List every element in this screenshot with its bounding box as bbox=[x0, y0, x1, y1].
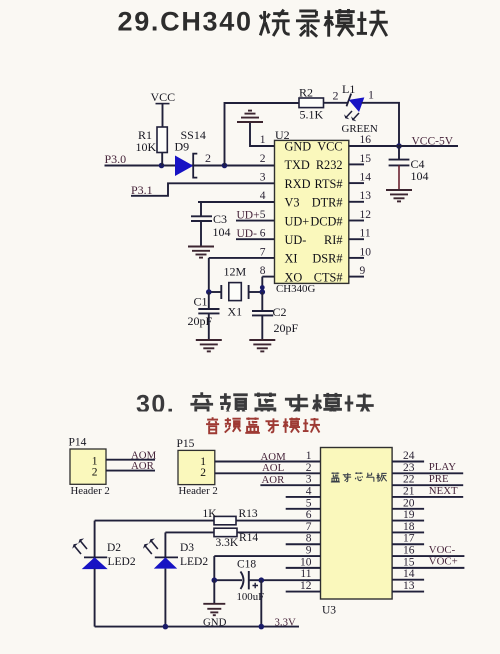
svg-text:7: 7 bbox=[260, 246, 266, 258]
U3 pin 8 stub wire bbox=[286, 543, 321, 545]
svg-text:PLAY: PLAY bbox=[429, 461, 456, 473]
svg-text:9: 9 bbox=[360, 265, 366, 277]
U3 pin 18 wire bbox=[392, 521, 424, 533]
U2 pin 9 CTS# bbox=[314, 265, 366, 284]
U3 pin 24 wire bbox=[392, 450, 424, 462]
svg-text:C1: C1 bbox=[194, 295, 208, 309]
resistor R1 10K bbox=[136, 127, 168, 166]
U2 pin 8 XO bbox=[260, 265, 303, 284]
crystal X1 12M bbox=[209, 264, 262, 318]
svg-text:2: 2 bbox=[260, 153, 266, 165]
svg-text:20pF: 20pF bbox=[188, 314, 213, 328]
svg-text:AOR: AOR bbox=[131, 460, 155, 472]
title: 29.CH340 burn module bbox=[118, 7, 388, 37]
svg-text:VCC-5V: VCC-5V bbox=[412, 135, 454, 147]
svg-text:UD-: UD- bbox=[285, 233, 307, 247]
svg-text:2: 2 bbox=[205, 151, 211, 165]
svg-text:5: 5 bbox=[306, 497, 312, 509]
resistor R2 5.1K bbox=[299, 86, 324, 122]
svg-text:15: 15 bbox=[403, 556, 415, 568]
svg-text:DTR#: DTR# bbox=[312, 196, 343, 210]
svg-text:17: 17 bbox=[403, 533, 415, 545]
svg-text:R13: R13 bbox=[239, 508, 258, 520]
svg-text:19: 19 bbox=[403, 509, 415, 521]
node crystal right bbox=[260, 289, 266, 295]
svg-text:6: 6 bbox=[260, 228, 266, 240]
wire branch up to R2 bbox=[225, 103, 300, 166]
U2 pin 4 V3 bbox=[260, 190, 300, 209]
svg-text:5: 5 bbox=[260, 209, 266, 221]
U2 pin 6 UD- bbox=[260, 228, 307, 247]
U2 pin 7 XI bbox=[260, 246, 298, 265]
svg-text:13: 13 bbox=[360, 190, 372, 202]
svg-text:UD-: UD- bbox=[237, 228, 258, 240]
net label UD- pin6 wire bbox=[236, 228, 275, 240]
capacitor C18 100uF bbox=[214, 558, 320, 603]
svg-text:U3: U3 bbox=[322, 604, 336, 616]
capacitor C2 20pF bbox=[252, 292, 299, 340]
svg-text:3: 3 bbox=[260, 172, 266, 184]
svg-text:C2: C2 bbox=[273, 305, 287, 319]
capacitor C3 104 bbox=[191, 202, 231, 246]
svg-text:LED2: LED2 bbox=[108, 556, 136, 568]
svg-text:C18: C18 bbox=[237, 558, 256, 570]
U3 pin 5 stub wire bbox=[286, 508, 321, 510]
U3 pin 15 wire bbox=[392, 556, 464, 569]
LED L1 GREEN bbox=[333, 82, 378, 135]
svg-text:14: 14 bbox=[360, 172, 372, 184]
svg-text:16: 16 bbox=[360, 134, 372, 146]
U3 pin 14 wire bbox=[392, 568, 424, 580]
svg-text:8: 8 bbox=[306, 533, 312, 545]
ground under C4 bbox=[386, 190, 412, 201]
svg-text:5.1K: 5.1K bbox=[300, 107, 324, 121]
U3 pin 12 stub wire bbox=[286, 591, 321, 593]
power VCC bbox=[151, 90, 176, 127]
svg-text:R2: R2 bbox=[299, 86, 313, 100]
node C18 plus / 3.3V branch bbox=[259, 577, 265, 583]
U2 pin 1 GND bbox=[260, 134, 312, 153]
svg-text:1: 1 bbox=[368, 88, 374, 102]
U2 pin 16 VCC bbox=[317, 134, 371, 153]
node C18 plus on rail bbox=[259, 624, 265, 630]
U3 pin 20 wire bbox=[392, 497, 424, 509]
U2 pin 11 RI# bbox=[324, 228, 371, 247]
svg-text:20pF: 20pF bbox=[274, 321, 299, 335]
svg-text:R14: R14 bbox=[239, 532, 258, 544]
U3 pin 22 wire bbox=[392, 473, 463, 486]
wire P14 pin2 AOR bbox=[106, 470, 155, 472]
capacitor C1 20pF bbox=[188, 292, 220, 340]
wire P3.1 to U2 pin3 bbox=[131, 183, 275, 196]
LED D3 bbox=[143, 532, 208, 626]
wire U3 pin9 to GND node bbox=[214, 555, 320, 557]
chip U3 bluetooth board body bbox=[321, 448, 393, 617]
svg-text:1: 1 bbox=[200, 456, 206, 468]
net label UD+ pin5 wire bbox=[236, 209, 275, 221]
ground (flipped) on U2 pin1 bbox=[237, 111, 275, 146]
wire U2 pin8 XO down bbox=[262, 276, 274, 278]
U2 pin 10 DSR# bbox=[312, 246, 371, 265]
svg-text:TXD: TXD bbox=[285, 158, 310, 172]
svg-text:4: 4 bbox=[306, 485, 312, 497]
svg-text:1K: 1K bbox=[203, 508, 218, 520]
svg-text:12: 12 bbox=[360, 209, 372, 221]
svg-text:13: 13 bbox=[403, 580, 415, 592]
title: 30. audio bluetooth module (clipped bottom) bbox=[136, 390, 374, 420]
svg-text:D2: D2 bbox=[107, 542, 121, 554]
node crystal left bbox=[206, 289, 212, 295]
svg-text:DSR#: DSR# bbox=[312, 252, 342, 266]
svg-text:UD+: UD+ bbox=[285, 214, 310, 228]
wire P15 pin1 to U3 pin1 AOM bbox=[215, 461, 321, 463]
svg-text:3: 3 bbox=[306, 474, 312, 486]
svg-text:104: 104 bbox=[213, 225, 231, 239]
svg-text:UD+: UD+ bbox=[237, 209, 260, 221]
LED D2 bbox=[72, 521, 136, 627]
svg-text:LED2: LED2 bbox=[180, 556, 208, 568]
ground under C3 bbox=[188, 247, 214, 258]
wire U2 pin16 VCC-5V bbox=[349, 145, 458, 147]
wire U3 pin3 AOR bbox=[260, 484, 320, 486]
svg-text:P15: P15 bbox=[177, 438, 195, 450]
svg-text:14: 14 bbox=[403, 568, 415, 580]
capacitor C4 104 bbox=[389, 146, 429, 190]
svg-text:24: 24 bbox=[403, 450, 415, 462]
svg-text:Header 2: Header 2 bbox=[71, 485, 110, 497]
U2 pin 12 DCD# bbox=[310, 209, 371, 228]
wire P14 pin1 AOM bbox=[106, 459, 155, 461]
svg-text:P14: P14 bbox=[69, 437, 87, 449]
svg-text:1: 1 bbox=[260, 134, 266, 146]
svg-text:CTS#: CTS# bbox=[314, 270, 343, 284]
svg-text:RXD: RXD bbox=[285, 177, 311, 191]
svg-text:12: 12 bbox=[300, 580, 312, 592]
resistor R14 3.3K bbox=[165, 528, 320, 549]
op chip U2 CH340G body bbox=[275, 128, 349, 295]
svg-text:3.3V: 3.3V bbox=[275, 617, 296, 629]
svg-text:CH340G: CH340G bbox=[276, 283, 315, 295]
U3 pin 13 wire bbox=[392, 580, 424, 592]
wire U2 pin4 V3 bbox=[198, 201, 275, 203]
node junction diode/R2 branch bbox=[222, 163, 228, 169]
svg-text:VOC+: VOC+ bbox=[429, 556, 458, 568]
svg-text:8: 8 bbox=[260, 265, 266, 277]
svg-text:GND: GND bbox=[285, 140, 312, 154]
svg-text:12M: 12M bbox=[224, 264, 247, 278]
U2 pin 13 DTR# bbox=[312, 190, 372, 209]
svg-text:9: 9 bbox=[306, 545, 312, 557]
svg-text:18: 18 bbox=[403, 521, 415, 533]
svg-text:Header 2: Header 2 bbox=[179, 485, 218, 497]
svg-text:AOR: AOR bbox=[262, 474, 286, 486]
wire L1 to VCC-5V rail bbox=[362, 103, 399, 146]
svg-text:21: 21 bbox=[403, 485, 415, 497]
svg-text:V3: V3 bbox=[285, 196, 300, 210]
svg-text:P3.0: P3.0 bbox=[105, 152, 127, 166]
svg-text:PRE: PRE bbox=[429, 473, 449, 485]
svg-text:DCD#: DCD# bbox=[310, 214, 342, 228]
svg-text:23: 23 bbox=[403, 462, 415, 474]
svg-text:104: 104 bbox=[411, 169, 429, 183]
svg-text:RI#: RI# bbox=[324, 233, 342, 247]
svg-text:11: 11 bbox=[360, 228, 371, 240]
svg-text:X1: X1 bbox=[228, 304, 243, 318]
svg-text:15: 15 bbox=[360, 153, 372, 165]
node junction R1/P3.0 bbox=[159, 163, 165, 169]
svg-text:100uF: 100uF bbox=[237, 591, 265, 603]
svg-text:16: 16 bbox=[403, 545, 415, 557]
svg-text:D3: D3 bbox=[180, 542, 194, 554]
svg-text:NEXT: NEXT bbox=[429, 485, 458, 497]
wire 3.3V rail bbox=[95, 626, 299, 628]
svg-text:AOM: AOM bbox=[261, 451, 287, 463]
U3 pin 21 wire bbox=[392, 485, 463, 498]
node junction VCC-5V bbox=[396, 143, 402, 149]
svg-text:XO: XO bbox=[285, 270, 303, 284]
svg-text:RTS#: RTS# bbox=[315, 177, 343, 191]
svg-text:VCC: VCC bbox=[317, 140, 342, 154]
svg-text:VOC-: VOC- bbox=[429, 544, 456, 556]
U3 pin 23 wire bbox=[392, 461, 463, 474]
svg-text:AOL: AOL bbox=[262, 462, 284, 474]
ground GND under C18 bbox=[203, 580, 227, 628]
svg-text:3.3K: 3.3K bbox=[216, 537, 239, 549]
svg-text:10K: 10K bbox=[136, 140, 157, 154]
svg-text:2: 2 bbox=[92, 466, 98, 478]
node C18 minus / GND bbox=[212, 577, 218, 583]
svg-text:2: 2 bbox=[200, 467, 206, 479]
svg-text:7: 7 bbox=[306, 521, 312, 533]
U3 pin 19 wire bbox=[392, 509, 424, 521]
U3 pin 16 wire bbox=[392, 544, 464, 557]
svg-text:D9: D9 bbox=[175, 140, 190, 154]
connector P15 Header 2 bbox=[177, 438, 218, 497]
svg-text:11: 11 bbox=[300, 568, 311, 580]
node D3 on rail bbox=[163, 624, 169, 630]
U2 pin 3 RXD bbox=[260, 172, 311, 191]
svg-text:XI: XI bbox=[285, 252, 298, 266]
svg-text:R232: R232 bbox=[316, 158, 343, 172]
U3 pin 10 stub wire bbox=[286, 567, 321, 569]
U3 pin 17 wire bbox=[392, 533, 424, 545]
U2 pin 2 TXD bbox=[260, 153, 310, 172]
chip U3 name text (CJK) bbox=[331, 472, 387, 482]
subtitle red: audio bluetooth module bbox=[206, 417, 320, 433]
svg-text:10: 10 bbox=[360, 246, 372, 258]
ground under C1 bbox=[196, 340, 222, 351]
wire P15 pin2 to U3 pin2 AOL bbox=[215, 472, 321, 474]
svg-text:VCC: VCC bbox=[151, 90, 176, 104]
svg-text:1: 1 bbox=[306, 450, 312, 462]
wire U2 pin7 XI down to crystal bbox=[209, 257, 275, 259]
U2 pin 5 UD+ bbox=[260, 209, 310, 228]
svg-text:L1: L1 bbox=[342, 82, 355, 96]
U2 pin 14 RTS# bbox=[315, 172, 372, 191]
connector P14 Header 2 bbox=[69, 437, 110, 497]
svg-text:2: 2 bbox=[333, 88, 339, 102]
wire R2 to LED L1 bbox=[324, 102, 349, 104]
svg-text:10: 10 bbox=[300, 556, 312, 568]
svg-text:29.CH340: 29.CH340 bbox=[118, 7, 253, 37]
wire C18 plus down to 3.3V rail bbox=[260, 580, 262, 626]
U3 pin 4 stub wire bbox=[286, 496, 321, 498]
svg-text:22: 22 bbox=[403, 474, 415, 486]
svg-text:30.: 30. bbox=[136, 390, 175, 418]
resistor R13 1K bbox=[95, 508, 321, 525]
wire P3.0 to U2 pin2 bbox=[105, 165, 275, 167]
svg-text:4: 4 bbox=[260, 190, 266, 202]
U2 pin 15 R232 bbox=[316, 153, 371, 172]
svg-text:6: 6 bbox=[306, 509, 312, 521]
diode D9 SS14 (schottky) bbox=[175, 128, 212, 178]
svg-text:2: 2 bbox=[306, 462, 312, 474]
svg-text:20: 20 bbox=[403, 497, 415, 509]
ground under C2 bbox=[249, 340, 275, 351]
